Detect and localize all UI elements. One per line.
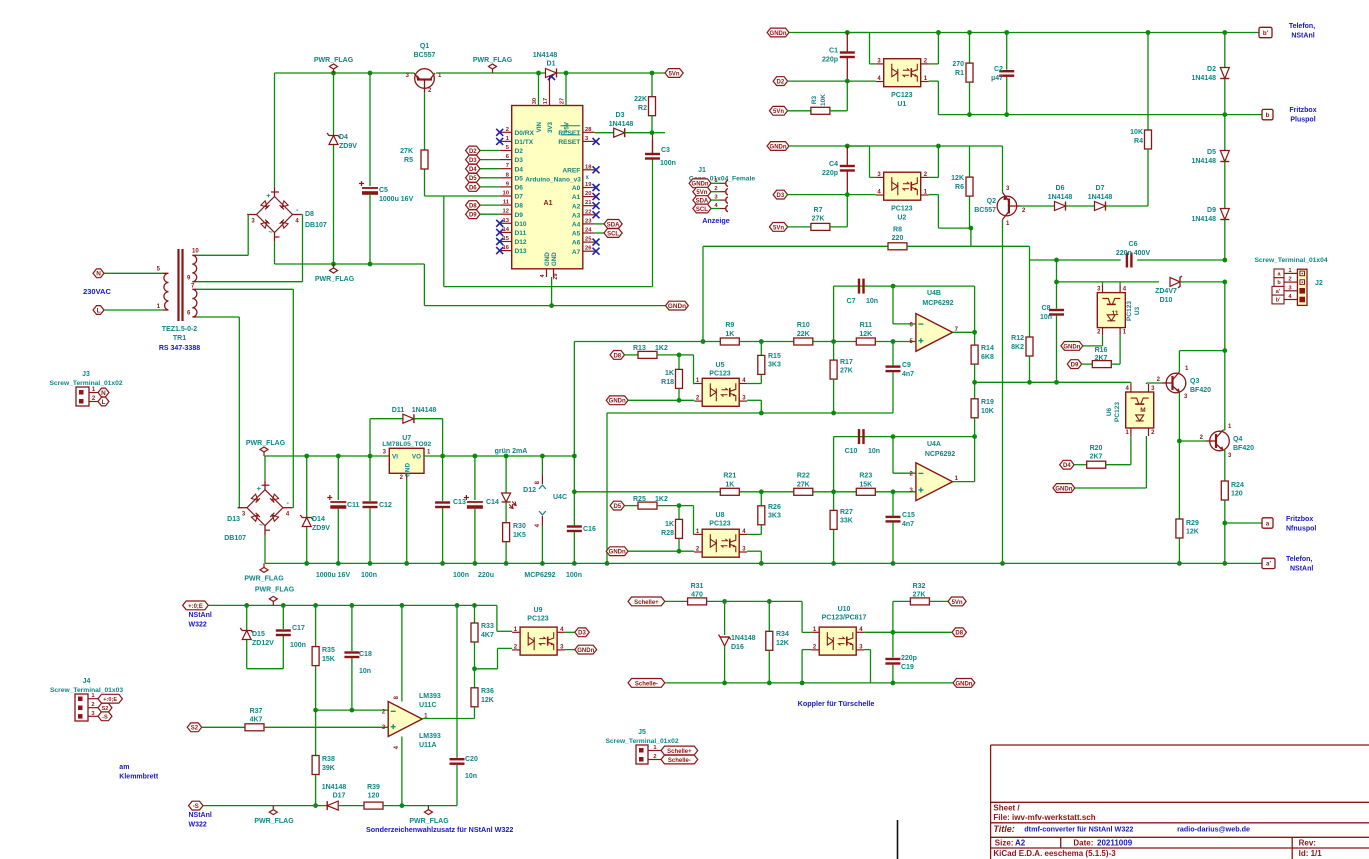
svg-text:DB107: DB107 [305, 222, 327, 229]
svg-text:D8: D8 [305, 211, 314, 218]
svg-text:U1: U1 [897, 101, 906, 108]
svg-text:D8: D8 [955, 631, 963, 637]
svg-text:Q1: Q1 [420, 43, 429, 50]
resistor R34 12K [768, 601, 770, 631]
svg-text:R1: R1 [955, 70, 964, 77]
svg-text:C18: C18 [359, 651, 372, 658]
svg-text:5Vn: 5Vn [669, 71, 680, 77]
svg-text:7: 7 [506, 163, 509, 169]
svg-text:10n: 10n [866, 298, 878, 305]
svg-text:230VAC: 230VAC [83, 287, 111, 296]
wire U10 pin4 net [864, 631, 952, 633]
J1 pin 3 SDA [693, 196, 711, 205]
svg-text:PWR_FLAG: PWR_FLAG [244, 576, 284, 583]
optocoupler U1 PC123 [884, 59, 921, 87]
svg-text:D4: D4 [339, 134, 348, 141]
svg-text:PWR_FLAG: PWR_FLAG [473, 57, 513, 64]
svg-text:GNDn: GNDn [1063, 344, 1080, 350]
wire R33 bottom to U9 pin2 [472, 666, 477, 671]
Arduino pin 7 D4 [500, 168, 512, 170]
Arduino pin 18 AREF [583, 169, 595, 171]
resistor R22 27K [794, 488, 813, 495]
svg-text:10n: 10n [359, 668, 371, 675]
svg-text:1K: 1K [725, 482, 734, 489]
optocoupler U3 PC123 rotated [1097, 293, 1125, 328]
resistor R39 120 [338, 805, 364, 807]
Arduino pin 5 D2 [500, 150, 512, 152]
svg-text:220u: 220u [478, 572, 494, 579]
wire minus input U4A [892, 437, 894, 474]
svg-text:2: 2 [506, 127, 509, 133]
svg-text:1N4148: 1N4148 [1088, 194, 1113, 201]
zener D4 ZD9V [333, 73, 335, 135]
global label N [93, 269, 104, 278]
svg-text:24: 24 [585, 228, 592, 234]
capacitor C2 u47 [1006, 33, 1008, 70]
svg-text:12K: 12K [1186, 529, 1199, 536]
svg-text:R22: R22 [797, 473, 810, 480]
global label GNDn U8 [606, 547, 628, 556]
wire R4 vertical from rail [1147, 33, 1149, 131]
wire U2 rail to Q2 top [970, 145, 1003, 147]
svg-text:3K3: 3K3 [768, 513, 781, 520]
svg-text:D0/RX: D0/RX [515, 130, 535, 137]
Arduino pin 28 RESET [583, 131, 595, 133]
Arduino pin 19 A0 [583, 187, 595, 189]
resistor R30 1K5 [503, 523, 510, 542]
voltage regulator U7 LM78L05_TO92 [389, 448, 424, 473]
Arduino pin 25 A6 [583, 241, 595, 243]
wire U9 pin3 to GNDn [565, 649, 575, 651]
svg-text:U11C: U11C [419, 702, 437, 709]
svg-text:PC123/PC817: PC123/PC817 [822, 615, 867, 622]
svg-text:1000u 16V: 1000u 16V [316, 572, 351, 579]
wire U8 pin3 down to bottom rail [747, 550, 761, 552]
bridge rectifier D13 DB107 [247, 490, 283, 526]
resistor R16 2K7 [1067, 360, 1081, 369]
resistor R4 10K [1145, 130, 1152, 149]
svg-text:12K: 12K [859, 331, 872, 338]
svg-text:D4: D4 [1063, 463, 1071, 469]
svg-text:+: + [266, 191, 271, 200]
svg-text:RESET: RESET [558, 139, 580, 146]
op-amp U4A NCP6292 [916, 463, 953, 501]
wire filter output rail 382 [975, 381, 1131, 383]
Arduino pin 3 RESET [583, 140, 595, 142]
LED D12 gruen [505, 456, 507, 493]
svg-text:220p: 220p [901, 655, 917, 662]
svg-text:+:0;E: +:0;E [103, 697, 117, 703]
terminal b Fritzbox Pluspol [1262, 109, 1273, 119]
wire U6 pin1 to R20 [1060, 460, 1074, 469]
wire to GNDn label [423, 264, 425, 306]
wire rail2 left vertical down to bottom rail [606, 413, 608, 563]
svg-text:U6: U6 [1106, 407, 1113, 416]
svg-text:R35: R35 [322, 647, 335, 654]
svg-text:dtmf-converter für NStAnl W322: dtmf-converter für NStAnl W322 [1024, 825, 1133, 834]
resistor R15 3K3 [760, 342, 762, 356]
PWR_FLAG 2 [492, 69, 494, 73]
svg-text:10: 10 [503, 191, 509, 197]
Arduino pin 8 D5 [500, 177, 512, 179]
global label Schelle+ [628, 597, 665, 606]
svg-text:29: 29 [553, 273, 559, 279]
svg-text:a′: a′ [1266, 561, 1271, 568]
global label D8 right [952, 628, 966, 637]
svg-text:D7: D7 [1096, 185, 1105, 192]
global label Schelle- [628, 679, 665, 688]
capacitor C19 220p [892, 632, 894, 657]
svg-text:Q3: Q3 [1190, 378, 1199, 385]
svg-text:R14: R14 [981, 345, 994, 352]
capacitor C9 4n7 [886, 365, 901, 367]
resistor R38 39K [315, 710, 317, 755]
svg-text:5Vn: 5Vn [773, 225, 784, 231]
Arduino GND pins [546, 269, 548, 277]
svg-text:11: 11 [1112, 310, 1119, 317]
svg-text:23: 23 [585, 218, 592, 224]
wire U1 pin1 down to fritzbox rail [929, 80, 939, 82]
title block [991, 745, 1369, 859]
svg-text:2K7: 2K7 [1095, 355, 1108, 362]
Arduino pin 24 A5 [583, 232, 595, 234]
svg-text:MCP6292: MCP6292 [922, 300, 953, 307]
svg-text:1000u 16V: 1000u 16V [379, 196, 414, 203]
svg-text:Koppler für Türschelle: Koppler für Türschelle [798, 699, 875, 708]
resistor R9 1K [720, 338, 739, 345]
svg-text:10n: 10n [1040, 314, 1052, 321]
svg-text:A1: A1 [572, 194, 581, 201]
svg-text:PC123: PC123 [1114, 402, 1121, 422]
wire Q1 collector to R5 [424, 92, 426, 150]
svg-text:NStAnl: NStAnl [1290, 566, 1313, 573]
svg-text:LM393: LM393 [419, 733, 441, 740]
wire U11 V- pin4 [401, 737, 403, 806]
capacitor C8 10n [1056, 282, 1058, 309]
svg-text:27K: 27K [913, 592, 926, 599]
PWR_FLAG 3 [333, 264, 335, 268]
Arduino pin 9 D6 [500, 186, 512, 188]
resistor R1 270 [969, 33, 971, 64]
svg-text:D10: D10 [1160, 297, 1173, 304]
svg-text:27K: 27K [400, 148, 413, 155]
Arduino pin 23 A4 [583, 223, 595, 225]
svg-text:C2: C2 [994, 66, 1003, 73]
svg-text:R28: R28 [661, 530, 674, 537]
Arduino pin 21 A2 [583, 205, 595, 207]
Arduino pin 1 D1/TX [500, 140, 512, 142]
svg-text:Klemmbrett: Klemmbrett [119, 774, 159, 781]
global label GNDn schelle [953, 679, 975, 688]
svg-text:D9: D9 [515, 212, 524, 219]
wire U11 output [422, 718, 474, 720]
svg-text:16: 16 [503, 245, 510, 251]
svg-text:D2: D2 [777, 80, 785, 86]
svg-text:Sonderzeichenwahlzusatz für NS: Sonderzeichenwahlzusatz für NStAnl W322 [366, 825, 513, 834]
capacitor C6 220n 400V [1126, 253, 1128, 268]
svg-text:b: b [1266, 112, 1270, 119]
wire C19 and GNDn [871, 682, 893, 684]
wire C7 feedback net [834, 285, 893, 287]
global label 5Vn top [665, 69, 683, 78]
svg-text:1K: 1K [665, 370, 674, 377]
svg-text:27: 27 [560, 98, 566, 104]
global label GNDn [666, 301, 689, 310]
wire minus input U4B [892, 286, 894, 324]
svg-text:R31: R31 [691, 583, 704, 590]
svg-text:Nfnuspol: Nfnuspol [1286, 526, 1316, 533]
wire gnd mid rail [275, 263, 425, 265]
resistor R36 12K [474, 669, 476, 688]
svg-text:5Vn: 5Vn [952, 600, 963, 606]
wire rail3 [574, 491, 720, 493]
wire R25 to U8 pin1 [679, 505, 694, 507]
svg-text:A3: A3 [572, 212, 581, 219]
resistor R5 27K [421, 150, 428, 169]
svg-text:12: 12 [503, 209, 509, 215]
svg-text:U4C: U4C [553, 494, 567, 501]
wire C6 net corner down to R12 [1029, 246, 1031, 260]
resistor R14 6K8 [974, 332, 976, 345]
wire top rail 605 [208, 604, 497, 606]
diode D7 1N4148 [1095, 202, 1106, 211]
svg-text:radio-darius@web.de: radio-darius@web.de [1177, 825, 1250, 834]
svg-text:LM393: LM393 [419, 693, 441, 700]
svg-text:D11: D11 [392, 407, 405, 414]
svg-text:12K: 12K [951, 175, 964, 182]
svg-text:R34: R34 [776, 631, 789, 638]
svg-text:U3: U3 [1134, 306, 1141, 315]
svg-text:PC123: PC123 [1126, 301, 1133, 321]
wire U2 pin1 to R6 bottom net [929, 194, 939, 196]
svg-text:120: 120 [368, 793, 380, 800]
wire R26 to U8 pin4 [747, 533, 761, 535]
PWR_FLAG 4 [263, 452, 265, 456]
zener D14 ZD9V [306, 456, 308, 517]
wire U10 pin3 down [864, 649, 870, 651]
svg-text:D6: D6 [1056, 185, 1065, 192]
svg-text:GNDn: GNDn [609, 550, 626, 556]
capacitor C20 10n [450, 758, 465, 760]
wire D13 top to VCC rail [264, 456, 266, 480]
Arduino pin 16 D13 [500, 250, 512, 252]
svg-text:21: 21 [585, 200, 592, 206]
svg-text:1N4148: 1N4148 [1191, 75, 1216, 82]
svg-text:RESET: RESET [558, 130, 580, 137]
resistor R6 12K [969, 146, 971, 177]
svg-text:C15: C15 [902, 512, 915, 519]
wire C6 rail [1030, 259, 1121, 261]
resistor R3 10K [769, 106, 787, 115]
svg-text:100n: 100n [290, 642, 306, 649]
svg-text:2: 2 [1288, 277, 1291, 283]
svg-text:20211009: 20211009 [1097, 838, 1133, 847]
svg-text:PC123: PC123 [709, 371, 731, 378]
svg-text:Screw_Terminal_01x04: Screw_Terminal_01x04 [1254, 257, 1327, 264]
svg-text:BF420: BF420 [1233, 445, 1254, 452]
capacitor C18 10n [351, 605, 353, 651]
svg-text:2: 2 [714, 186, 717, 192]
global label GNDn U5 [606, 396, 628, 405]
svg-text:GNDn: GNDn [577, 648, 594, 654]
capacitor C3 100n [645, 153, 660, 155]
terminal a' Telefon NStAnl [1262, 558, 1275, 568]
global label +:0;E [183, 601, 209, 610]
svg-text:~: ~ [268, 230, 272, 237]
op-amp U4B MCP6292 [916, 314, 953, 352]
svg-text:220p: 220p [822, 57, 838, 64]
svg-text:D5: D5 [469, 176, 477, 182]
svg-text:C16: C16 [583, 526, 596, 533]
wire R5 to D7 net [425, 195, 444, 197]
global label -S [189, 801, 203, 810]
svg-text:D17: D17 [333, 793, 346, 800]
resistor R26 3K3 [760, 492, 762, 506]
svg-text:19: 19 [585, 182, 592, 188]
svg-text:R7: R7 [814, 207, 823, 214]
svg-text:GND: GND [544, 252, 551, 266]
wire Schelle+ to R31 [665, 600, 688, 602]
svg-text:Screw_Terminal_01x02: Screw_Terminal_01x02 [605, 738, 678, 745]
svg-text:Schelle+: Schelle+ [634, 600, 659, 606]
svg-text:A2: A2 [572, 203, 581, 210]
svg-text:J4: J4 [83, 678, 91, 685]
svg-text:R32: R32 [913, 583, 926, 590]
svg-text:NStAnl: NStAnl [1291, 33, 1314, 40]
svg-text:22K: 22K [634, 96, 647, 103]
wire S2 to R37 [202, 726, 245, 728]
zener D15 ZD12V [246, 605, 248, 630]
Arduino pin 22 A3 [583, 214, 595, 216]
svg-text:D2: D2 [1207, 66, 1216, 73]
transistor Q3 BF420 [1166, 373, 1186, 393]
svg-text:J1: J1 [698, 167, 706, 174]
wire U6 pin4 to filter rail [1130, 382, 1132, 384]
svg-text:R37: R37 [250, 708, 263, 715]
wire D3 to U2 pin4 [773, 190, 787, 199]
optocoupler U2 PC123 [884, 172, 921, 200]
svg-text:am: am [119, 764, 129, 771]
wire Arduino D7 to C3 net [444, 195, 500, 197]
svg-text:2: 2 [91, 702, 94, 708]
svg-text:ZD4V7: ZD4V7 [1155, 288, 1177, 295]
svg-text:PC123: PC123 [891, 206, 913, 213]
svg-text:R3: R3 [811, 95, 818, 104]
svg-text:C13: C13 [453, 499, 466, 506]
svg-text:100n: 100n [660, 160, 676, 167]
svg-text:R21: R21 [723, 473, 736, 480]
wire to U9 pin1 [496, 605, 498, 631]
optocoupler U6 PC123 rotated [1126, 392, 1154, 428]
svg-text:Schelle-: Schelle- [635, 681, 658, 687]
resistor R29 12K [1178, 441, 1180, 519]
svg-text:18: 18 [585, 164, 592, 170]
svg-text:ZD9V: ZD9V [339, 143, 357, 150]
svg-text:AREF: AREF [562, 167, 580, 174]
svg-text:R19: R19 [981, 399, 994, 406]
wire U3 pin3 pin4 to rail [1102, 282, 1104, 285]
svg-text:10n: 10n [868, 448, 880, 455]
svg-text:S2: S2 [102, 706, 109, 712]
svg-text:1N4148: 1N4148 [609, 121, 634, 128]
svg-text:GND: GND [405, 463, 412, 477]
svg-text:D6: D6 [469, 185, 477, 191]
svg-text:N: N [101, 390, 106, 397]
wire D2 to U1 pin4 [773, 77, 787, 86]
wire U1 pin2 up to rail [929, 63, 939, 65]
svg-text:NCP6292: NCP6292 [925, 451, 955, 458]
svg-text:D6: D6 [515, 185, 524, 192]
wire U3 rail [1056, 260, 1058, 282]
svg-text:1N4148: 1N4148 [731, 635, 756, 642]
wire U11 V+ pin8 [401, 605, 403, 701]
svg-text:b′: b′ [1263, 30, 1269, 37]
resistor R28 1K [678, 506, 680, 520]
diode D5 1N4148 vertical [1224, 115, 1226, 151]
diode D9 1N4148 vertical [1220, 209, 1229, 220]
Arduino pin 10 D7 [500, 195, 512, 197]
svg-text:R13: R13 [633, 345, 646, 352]
resistor R11 12K [856, 338, 875, 345]
svg-text:A6: A6 [572, 240, 581, 247]
svg-text:PC123: PC123 [527, 616, 549, 623]
svg-text:PWR_FLAG: PWR_FLAG [315, 276, 355, 283]
svg-text:D5: D5 [613, 504, 621, 510]
svg-text:D3: D3 [777, 193, 785, 199]
svg-text:4n7: 4n7 [902, 371, 914, 378]
wire L input [104, 309, 163, 311]
diode D2 1N4148 vertical [1224, 33, 1226, 68]
svg-text:220p: 220p [822, 170, 838, 177]
wire VCC rail 456 [264, 455, 389, 457]
resistor R10 22K [794, 338, 813, 345]
svg-text:VO: VO [412, 454, 421, 461]
resistor R24 120 [1224, 450, 1226, 481]
PWR_FLAG 6 [272, 601, 274, 605]
junction top rail [331, 71, 336, 76]
transformer TR1 TEZ1.5-0-2 [177, 249, 179, 321]
op-amp U11A LM393 [388, 702, 422, 737]
svg-text:+: + [257, 484, 262, 493]
svg-text:C19: C19 [901, 664, 914, 671]
diode D1 1N4148 [546, 69, 557, 78]
wire bottom rail Telefon a' [265, 562, 1262, 564]
svg-text:TR1: TR1 [173, 335, 186, 342]
wire bottom rail -S [203, 805, 327, 807]
svg-text:D8: D8 [469, 204, 477, 210]
svg-text:NStAnl: NStAnl [189, 812, 212, 819]
capacitor C7 10n [858, 279, 860, 294]
svg-text:-S: -S [193, 804, 199, 810]
transistor Q1 BC557 [415, 69, 435, 89]
Arduino pin 20 A1 [583, 196, 595, 198]
svg-text:15: 15 [503, 236, 510, 242]
svg-text:BC557: BC557 [974, 207, 996, 214]
diode D11 1N4148 bypass [369, 419, 371, 456]
svg-text:D9: D9 [469, 213, 477, 219]
wire U6 pin3 up [1145, 383, 1147, 384]
wire SCL [595, 232, 604, 234]
svg-text:C14: C14 [486, 499, 499, 506]
global label S2 [187, 723, 201, 732]
wire main vertical 574 rail1-rail3 [573, 342, 575, 457]
Arduino pin 15 D12 [500, 241, 512, 243]
svg-text:GNDn: GNDn [1055, 486, 1072, 492]
svg-text:1K5: 1K5 [513, 532, 526, 539]
svg-text:6K8: 6K8 [981, 354, 994, 361]
svg-text:1N4148: 1N4148 [412, 407, 437, 414]
resistor R32 27K [892, 601, 894, 632]
